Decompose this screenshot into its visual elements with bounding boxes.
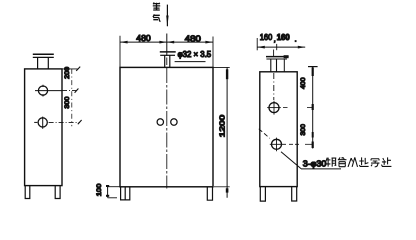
svg-text:100: 100 — [96, 183, 103, 196]
svg-text:400: 400 — [300, 77, 307, 89]
svg-text:3-φ30: 3-φ30 — [303, 159, 327, 168]
svg-text:φ32 × 3.5: φ32 × 3.5 — [178, 50, 212, 59]
svg-text:200: 200 — [64, 66, 71, 78]
svg-text:,: , — [274, 37, 276, 44]
svg-text:160: 160 — [277, 33, 290, 42]
svg-text:.: . — [295, 37, 297, 44]
svg-text:480: 480 — [136, 34, 151, 43]
svg-text:480: 480 — [185, 34, 202, 43]
svg-text:300: 300 — [64, 96, 71, 108]
svg-text:300: 300 — [300, 124, 307, 136]
svg-text:160: 160 — [260, 33, 273, 42]
svg-text:1200: 1200 — [217, 115, 226, 138]
